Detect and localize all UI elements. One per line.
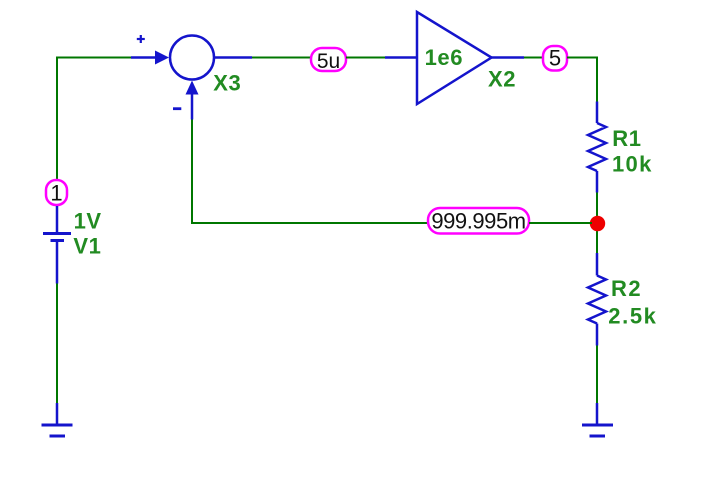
wire: amplifier output to node 5 label	[524, 57, 543, 59]
svg-text:X2: X2	[488, 66, 516, 91]
summer X3: minus input arrowhead and lead	[186, 81, 199, 120]
resistor R1	[588, 102, 606, 193]
summer X3: output lead	[214, 56, 252, 59]
wire: node 5 label to top-right corner and down to R1	[567, 58, 597, 102]
wire: R2 bottom to right ground	[596, 346, 598, 404]
wire: feedback horizontal right segment to junction	[529, 222, 592, 224]
svg-text:5: 5	[549, 45, 561, 70]
svg-text:10k: 10k	[612, 152, 653, 177]
summer X3: circle	[170, 36, 214, 80]
voltage source V1 (battery symbol)	[43, 206, 71, 284]
wire: summer output to 5u label	[252, 57, 311, 59]
svg-text:1e6: 1e6	[425, 45, 464, 70]
summer X3: plus input lead and arrowhead	[131, 51, 169, 65]
svg-text:1V: 1V	[74, 208, 102, 233]
svg-text:V1: V1	[73, 234, 101, 259]
node 5 label	[543, 45, 567, 70]
op-amp X2: output lead	[492, 56, 525, 59]
svg-text:X3: X3	[213, 71, 241, 96]
wire: feedback vertical from summer minus input down	[191, 120, 193, 225]
wire: V1 bottom to left ground	[56, 284, 58, 404]
wire: feedback horizontal left segment to probe label	[191, 222, 428, 224]
svg-text:999.995m: 999.995m	[431, 209, 525, 234]
svg-text:R1: R1	[612, 126, 641, 151]
svg-text:2.5k: 2.5k	[608, 303, 657, 328]
summer X3: minus sign	[173, 107, 181, 110]
probe label 5u	[311, 48, 346, 73]
op-amp X2: triangle body	[417, 12, 492, 104]
junction dot	[590, 216, 605, 231]
ground (right)	[582, 403, 613, 436]
wire: top horizontal from V1 column to summer input	[56, 57, 131, 59]
svg-text:R2: R2	[611, 276, 642, 301]
wire: R1 bottom to junction	[596, 193, 598, 224]
op-amp X2: input lead	[385, 56, 417, 59]
wire: 5u label to amplifier input lead	[346, 57, 385, 59]
svg-text:5u: 5u	[317, 50, 340, 73]
wire: junction to R2 top	[596, 223, 598, 253]
wire: left vertical from top corner down to node 1 label	[56, 57, 58, 186]
summer X3: plus sign	[137, 35, 145, 43]
ground (left)	[42, 403, 73, 436]
probe label 999.995m	[428, 208, 529, 234]
resistor R2	[588, 253, 606, 346]
svg-text:1: 1	[50, 181, 62, 206]
node 1 label	[46, 180, 67, 206]
